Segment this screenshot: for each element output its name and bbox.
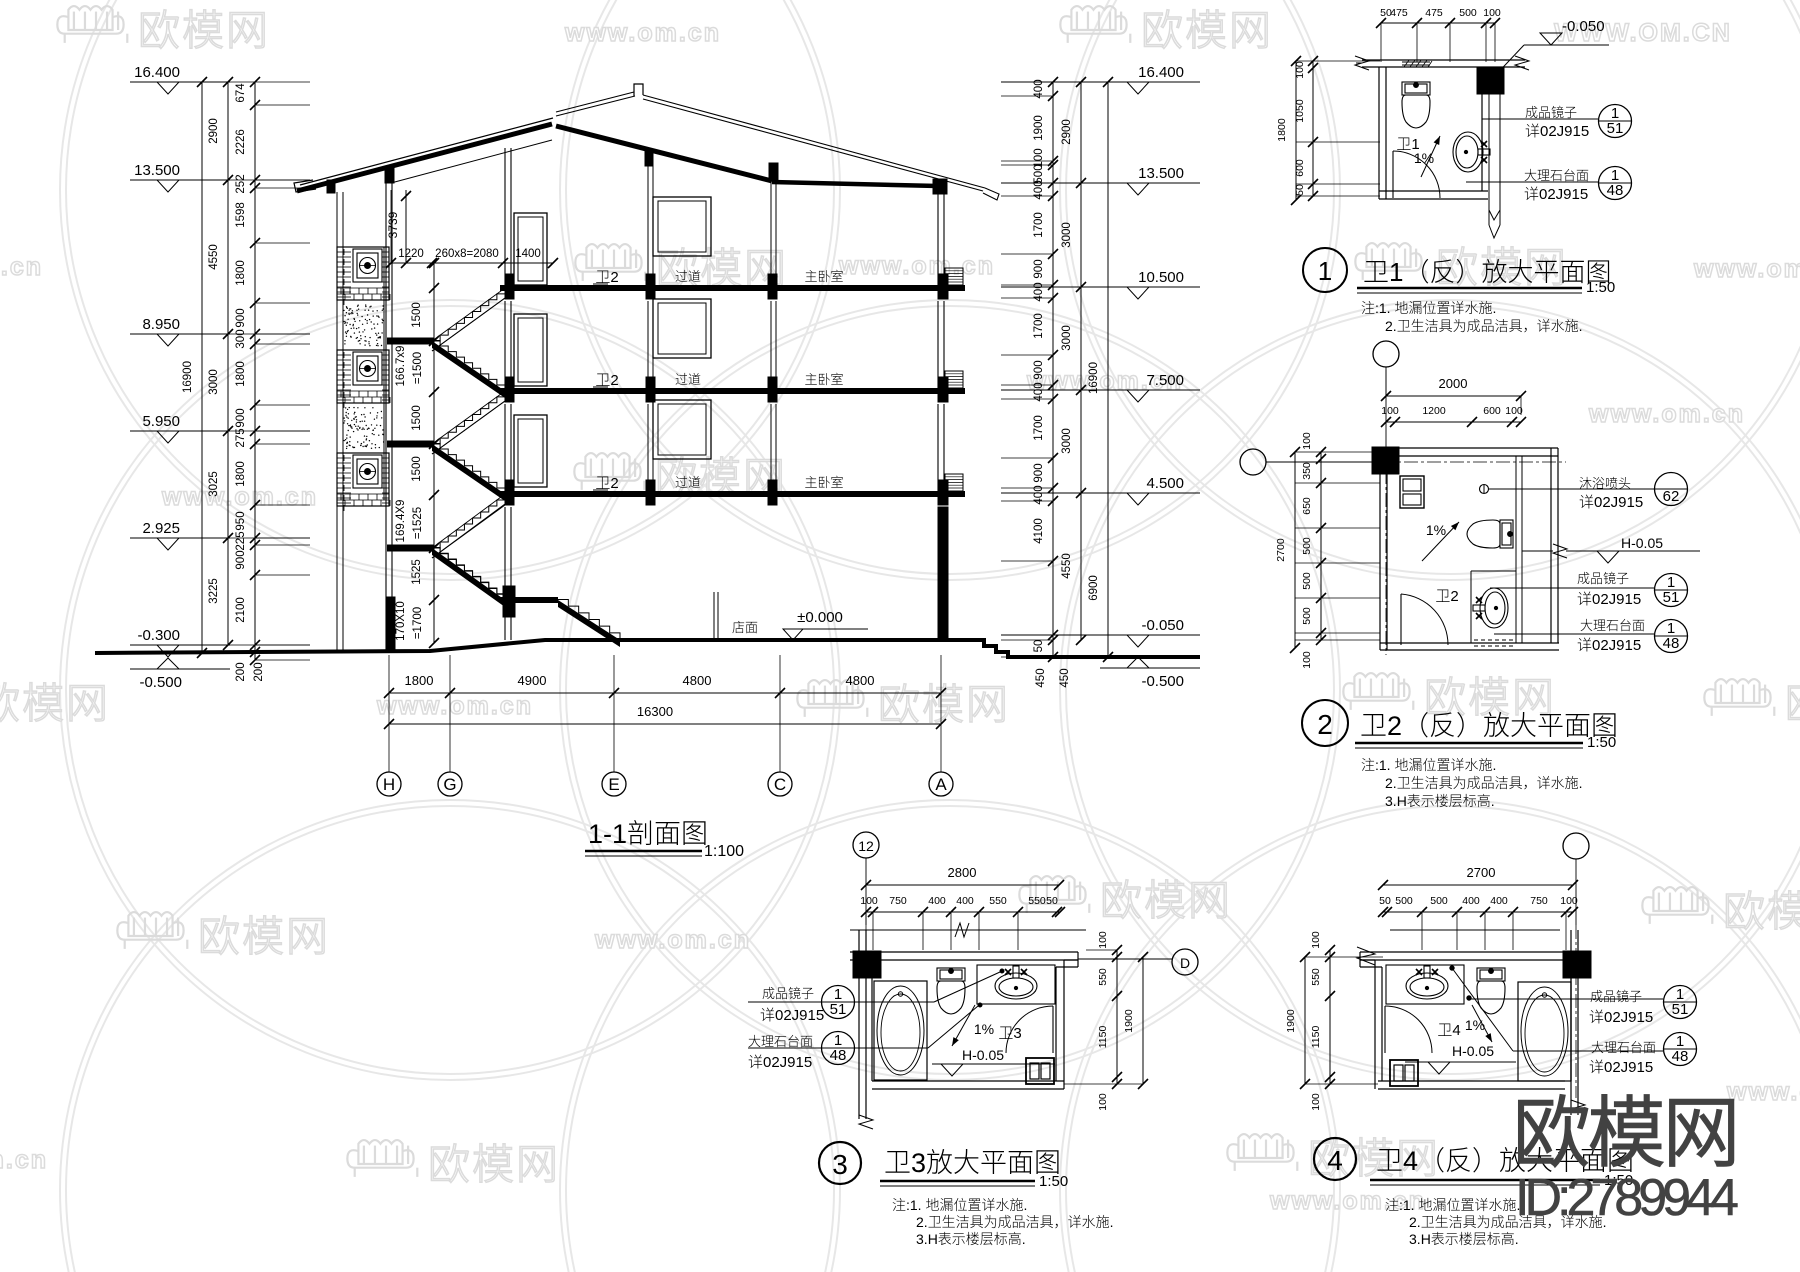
w3: slope arrow — [952, 1005, 975, 1046]
svg-text:www.om.cn: www.om.cn — [0, 253, 43, 281]
svg-text:600: 600 — [1483, 405, 1501, 417]
svg-text:卫4: 卫4 — [1437, 1019, 1460, 1040]
watermark tile: sofa + brand text at 220,936 — [117, 912, 187, 949]
svg-text:www.om.cn: www.om.cn — [564, 19, 721, 47]
w1: marble counter leader — [1466, 181, 1598, 183]
watermark tile: sofa + brand text at 450,1164 — [347, 1140, 417, 1177]
svg-text:3000: 3000 — [1061, 222, 1073, 248]
svg-text:主卧室: 主卧室 — [804, 266, 843, 285]
svg-text:www.om.cn: www.om.cn — [0, 1146, 48, 1174]
section: right roof slope (steep then shallow) — [556, 126, 772, 181]
svg-text:详02J915: 详02J915 — [1524, 183, 1588, 204]
w2: shower leader — [1489, 488, 1654, 490]
svg-text:500: 500 — [1459, 7, 1477, 19]
svg-text:900: 900 — [235, 408, 247, 427]
w3: title — [819, 1142, 861, 1184]
svg-text:2900: 2900 — [208, 118, 220, 144]
svg-text:A: A — [935, 775, 947, 794]
svg-text:450: 450 — [1035, 668, 1047, 687]
svg-text:1800: 1800 — [405, 673, 434, 688]
watermark tile: sofa + brand text at 1330,1158 — [1227, 1134, 1297, 1171]
section: floor slab 3F — [500, 388, 965, 394]
watermark tile: sofa + brand text at 1446,697 — [1343, 673, 1413, 710]
section: room label underlines — [593, 283, 608, 285]
section: chimney shaft with brick hatch boxes — [337, 247, 389, 300]
w4: washing machine — [1390, 1060, 1418, 1086]
svg-text:100: 100 — [1310, 931, 1322, 949]
svg-text:475: 475 — [1425, 7, 1443, 19]
stair flight (beyond) — [432, 288, 505, 341]
right dim chain: total — [1107, 82, 1109, 657]
svg-text:500: 500 — [1430, 895, 1448, 907]
stair guard lines — [432, 298, 505, 351]
svg-text:10.500: 10.500 — [1138, 269, 1184, 286]
svg-text:7.500: 7.500 — [1146, 372, 1184, 389]
svg-text:欧模网: 欧模网 — [1513, 1072, 1738, 1183]
w3: marble leader — [748, 1047, 928, 1049]
svg-text:欧模网: 欧模网 — [0, 670, 110, 731]
section: right eave tip — [983, 188, 999, 200]
svg-text:1700: 1700 — [1033, 313, 1045, 339]
svg-text:4800: 4800 — [846, 673, 875, 688]
svg-text:4550: 4550 — [208, 244, 220, 270]
svg-text:欧模网: 欧模网 — [428, 1131, 560, 1192]
stair rise dim chain — [433, 263, 435, 643]
svg-text:大理石台面: 大理石台面 — [1591, 1037, 1656, 1056]
svg-text:900: 900 — [235, 550, 247, 569]
svg-text:100: 100 — [1483, 7, 1501, 19]
svg-text:=1700: =1700 — [412, 607, 424, 639]
svg-text:674: 674 — [235, 83, 247, 103]
w2: shower head — [1480, 485, 1489, 494]
svg-text:16.400: 16.400 — [1138, 64, 1184, 81]
svg-text:1:100: 1:100 — [704, 843, 744, 860]
svg-text:48: 48 — [1663, 635, 1680, 652]
svg-text:1800: 1800 — [1276, 118, 1288, 142]
svg-text:500: 500 — [1395, 895, 1413, 907]
svg-text:成品镜子: 成品镜子 — [1590, 986, 1642, 1005]
svg-text:1%: 1% — [1465, 1017, 1485, 1033]
svg-text:1:50: 1:50 — [1587, 734, 1616, 751]
svg-text:±0.000: ±0.000 — [797, 609, 843, 626]
left dim chain: storey heights — [227, 82, 229, 645]
svg-text:550: 550 — [1097, 968, 1109, 986]
svg-text:2226: 2226 — [235, 129, 247, 155]
svg-text:www.om.cn: www.om.cn — [376, 692, 533, 720]
stair flight (cut) — [432, 548, 505, 607]
right dim chain: storeys — [1080, 82, 1082, 640]
svg-text:50: 50 — [1046, 895, 1058, 907]
svg-text:详02J915: 详02J915 — [1577, 588, 1641, 609]
w1: top dim chain — [1381, 22, 1495, 24]
svg-text:2900: 2900 — [1061, 119, 1073, 145]
w4: left dim chains — [1329, 950, 1331, 1084]
svg-text:950: 950 — [235, 511, 247, 530]
svg-text:主卧室: 主卧室 — [804, 472, 843, 491]
section: right exterior wall — [937, 193, 939, 288]
svg-text:475: 475 — [1390, 7, 1408, 19]
svg-text:注:1. 地漏位置详水施.: 注:1. 地漏位置详水施. — [1361, 298, 1496, 318]
svg-text:100: 100 — [1505, 405, 1523, 417]
w1: toilet — [1402, 82, 1430, 128]
svg-text:100: 100 — [860, 895, 878, 907]
svg-text:H-0.05: H-0.05 — [1452, 1043, 1494, 1059]
svg-text:卫1（反）放大平面图: 卫1（反）放大平面图 — [1363, 252, 1611, 289]
w1: title — [1303, 248, 1347, 292]
w4: dim fine — [1383, 911, 1573, 913]
svg-text:2800: 2800 — [948, 865, 977, 880]
svg-text:650: 650 — [1301, 497, 1313, 515]
svg-text:200: 200 — [235, 662, 247, 681]
svg-text:欧模网: 欧模网 — [138, 0, 270, 58]
svg-text:www.om.cn: www.om.cn — [594, 926, 751, 954]
svg-text:www.om.cn: www.om.cn — [1588, 400, 1745, 428]
stair landing slab — [387, 441, 434, 448]
svg-text:1500: 1500 — [411, 302, 423, 328]
watermark tile: sofa + brand text at 1122,900 — [1019, 876, 1089, 913]
svg-text:225: 225 — [235, 531, 247, 550]
svg-text:1700: 1700 — [1033, 415, 1045, 441]
svg-text:51: 51 — [1672, 1001, 1689, 1018]
w1: slab strip walls — [1362, 59, 1525, 61]
svg-text:1500: 1500 — [411, 405, 423, 431]
svg-text:1500: 1500 — [411, 456, 423, 482]
svg-text:ID:2789944: ID:2789944 — [1515, 1169, 1738, 1227]
svg-text:卫2: 卫2 — [595, 472, 618, 493]
svg-text:48: 48 — [830, 1047, 847, 1064]
svg-text:13.500: 13.500 — [134, 162, 180, 179]
svg-text:550: 550 — [989, 895, 1007, 907]
w1: door swing — [1392, 151, 1394, 198]
svg-text:大理石台面: 大理石台面 — [1524, 165, 1589, 184]
svg-text:2.卫生洁具为成品洁具，详水施.: 2.卫生洁具为成品洁具，详水施. — [1385, 773, 1583, 793]
svg-text:C: C — [774, 775, 786, 794]
svg-text:-0.500: -0.500 — [139, 674, 182, 691]
section: floor slab 4F — [500, 285, 965, 291]
w3: mirror leader — [748, 1001, 934, 1003]
svg-text:16900: 16900 — [182, 361, 194, 393]
left dim chain: fine — [254, 82, 256, 660]
svg-text:3739: 3739 — [386, 211, 400, 238]
w4: title — [1314, 1138, 1356, 1180]
svg-text:170X10: 170X10 — [395, 601, 407, 641]
w4: basin counter — [1386, 965, 1464, 1004]
svg-text:-0.300: -0.300 — [137, 627, 180, 644]
svg-text:1220: 1220 — [398, 248, 424, 260]
svg-text:详02J915: 详02J915 — [1579, 491, 1643, 512]
svg-text:店面: 店面 — [732, 617, 758, 636]
w4: dim 2700 — [1383, 884, 1573, 886]
svg-text:成品镜子: 成品镜子 — [762, 983, 814, 1002]
svg-text:D: D — [1180, 955, 1190, 971]
svg-text:169.4X9: 169.4X9 — [395, 500, 407, 543]
w4: door swing — [1384, 1006, 1386, 1053]
svg-text:1050: 1050 — [1294, 99, 1306, 123]
svg-text:550: 550 — [1028, 895, 1046, 907]
section: roof purlin blocks — [327, 180, 335, 193]
svg-text:750: 750 — [1530, 895, 1548, 907]
w3: bathtub — [874, 981, 927, 1080]
svg-text:100: 100 — [1310, 1093, 1322, 1111]
svg-text:1:50: 1:50 — [1586, 279, 1615, 296]
svg-text:过道: 过道 — [675, 472, 701, 491]
stair landing slab — [387, 338, 434, 345]
svg-text:50: 50 — [1294, 184, 1306, 196]
w2: slope arrow 1% — [1422, 522, 1459, 561]
svg-text:欧模网: 欧模网 — [1100, 867, 1232, 928]
svg-text:1525: 1525 — [411, 559, 423, 585]
svg-text:400: 400 — [928, 895, 946, 907]
svg-text:3.H表示楼层标高.: 3.H表示楼层标高. — [1385, 791, 1495, 811]
section: ridge vent stub — [634, 84, 643, 96]
section: interior window elevations (corridor wall) — [653, 197, 711, 256]
svg-text:350: 350 — [1301, 462, 1313, 480]
svg-text:卫2（反）放大平面图: 卫2（反）放大平面图 — [1360, 704, 1618, 743]
svg-text:G: G — [443, 775, 456, 794]
svg-text:欧模网: 欧模网 — [1141, 0, 1273, 58]
svg-text:900: 900 — [1033, 259, 1045, 278]
svg-text:详02J915: 详02J915 — [1589, 1006, 1653, 1027]
svg-text:4900: 4900 — [518, 673, 547, 688]
svg-text:详02J915: 详02J915 — [748, 1051, 812, 1072]
w4: walls — [1360, 951, 1583, 953]
w3: upper ref line with break — [850, 929, 1086, 931]
w1: slope arrow — [1421, 136, 1440, 177]
svg-text:1800: 1800 — [235, 260, 247, 286]
svg-text:13.500: 13.500 — [1138, 165, 1184, 182]
svg-text:100: 100 — [1301, 651, 1313, 669]
svg-text:欧模网: 欧模网 — [1723, 878, 1800, 939]
svg-text:E: E — [608, 775, 619, 794]
svg-text:100: 100 — [1560, 895, 1578, 907]
svg-text:3000: 3000 — [1061, 325, 1073, 351]
w4: marble leader — [1513, 1050, 1663, 1052]
w3: grid bubble D — [1172, 949, 1198, 975]
svg-text:51: 51 — [1663, 589, 1680, 606]
stair flight (beyond) — [432, 494, 505, 548]
svg-text:1900: 1900 — [1033, 115, 1045, 141]
svg-text:5.950: 5.950 — [142, 413, 180, 430]
svg-text:8.950: 8.950 — [142, 316, 180, 333]
section: right wall louver vents — [945, 268, 963, 285]
svg-text:260x8=2080: 260x8=2080 — [435, 248, 499, 260]
svg-text:卫2: 卫2 — [595, 266, 618, 287]
w3: basin counter — [977, 965, 1055, 1004]
svg-text:欧模网: 欧模网 — [198, 903, 330, 964]
svg-text:1800: 1800 — [235, 461, 247, 487]
watermark tile: sofa + brand text at 1458,267 — [1355, 243, 1425, 280]
w2: shelf box top left — [1400, 476, 1424, 508]
svg-text:550: 550 — [1310, 968, 1322, 986]
w4: slope arrow — [1472, 1005, 1492, 1042]
section: corridor partition wall — [647, 166, 649, 274]
w2: walls — [1372, 447, 1558, 449]
svg-text:2.卫生洁具为成品洁具，详水施.: 2.卫生洁具为成品洁具，详水施. — [1385, 316, 1583, 336]
svg-text:详02J915: 详02J915 — [760, 1004, 824, 1025]
stair flight (beyond) — [432, 391, 505, 444]
svg-text:=1500: =1500 — [412, 352, 424, 384]
svg-text:450: 450 — [1059, 668, 1071, 687]
w2: door swing — [1400, 594, 1402, 645]
svg-text:H-0.05: H-0.05 — [962, 1047, 1004, 1063]
w4: upper ref line with break — [1390, 929, 1560, 931]
svg-text:详02J915: 详02J915 — [1525, 120, 1589, 141]
svg-text:欧模网: 欧模网 — [1785, 670, 1800, 731]
stair landing slab — [387, 545, 434, 552]
svg-text:48: 48 — [1607, 182, 1624, 199]
svg-text:1400: 1400 — [515, 248, 541, 260]
svg-text:详02J915: 详02J915 — [1577, 634, 1641, 655]
svg-text:100: 100 — [1097, 931, 1109, 949]
watermark tile: sofa + brand text at 678,268 — [575, 244, 645, 281]
svg-text:沐浴喷头: 沐浴喷头 — [1579, 473, 1631, 492]
svg-text:400: 400 — [1462, 895, 1480, 907]
watermark tile: sofa + brand text at 1745,911 — [1642, 887, 1712, 924]
svg-text:卫3放大平面图: 卫3放大平面图 — [884, 1141, 1061, 1180]
dim 1220 260x8=2080 1400 — [391, 262, 553, 264]
svg-text:51: 51 — [1607, 120, 1624, 137]
svg-text:1900: 1900 — [1285, 1009, 1297, 1033]
w1: leader to -0.050 — [1491, 45, 1524, 80]
svg-text:300: 300 — [235, 329, 247, 348]
section: stair/room wall — [504, 148, 506, 288]
section: left roof slope — [297, 124, 552, 191]
section: wall column blocks at slabs — [505, 274, 514, 299]
svg-text:成品镜子: 成品镜子 — [1577, 568, 1629, 587]
svg-text:1150: 1150 — [1310, 1026, 1322, 1049]
svg-text:3000: 3000 — [1061, 428, 1073, 454]
right dim chain: fine — [1052, 82, 1054, 657]
bottom dim chain — [389, 692, 941, 694]
svg-text:3.H表示楼层标高.: 3.H表示楼层标高. — [1409, 1229, 1519, 1249]
svg-text:1%: 1% — [1426, 522, 1446, 538]
svg-text:2100: 2100 — [235, 597, 247, 623]
w3: right dim chains — [1116, 950, 1118, 1084]
watermark tile: sofa + brand text at 1163,30 — [1060, 6, 1130, 43]
svg-text:750: 750 — [889, 895, 907, 907]
w1: pipe shaft — [1488, 94, 1490, 225]
w1: mirror leader — [1482, 118, 1598, 120]
svg-text:16.400: 16.400 — [134, 64, 180, 81]
stair bottom flight to shop floor — [558, 600, 620, 647]
svg-text:www.om.cn: www.om.cn — [1693, 255, 1800, 283]
w4: grid bubble top — [1563, 833, 1589, 859]
w2: grid bubble top — [1373, 341, 1399, 367]
svg-text:12: 12 — [858, 838, 874, 854]
svg-text:62: 62 — [1663, 488, 1680, 505]
svg-text:H-0.05: H-0.05 — [1621, 535, 1663, 551]
grid bubbles H G E C A — [377, 772, 401, 796]
svg-text:4.500: 4.500 — [1146, 475, 1184, 492]
w1: room walls — [1378, 67, 1380, 199]
svg-text:900: 900 — [235, 308, 247, 327]
w3: dim fine — [866, 911, 1060, 913]
svg-text:1150: 1150 — [1097, 1026, 1109, 1049]
svg-text:卫3: 卫3 — [998, 1022, 1021, 1043]
svg-text:成品镜子: 成品镜子 — [1525, 102, 1577, 121]
section: shop floor slab — [548, 638, 984, 642]
w1: black column — [1477, 67, 1504, 94]
svg-text:4800: 4800 — [683, 673, 712, 688]
w4: bathtub — [1518, 982, 1571, 1081]
svg-text:欧模网: 欧模网 — [878, 671, 1010, 732]
w4: mirror leader — [1469, 998, 1663, 1000]
svg-text:500: 500 — [1301, 607, 1313, 625]
svg-text:900: 900 — [1033, 463, 1045, 482]
svg-text:主卧室: 主卧室 — [804, 369, 843, 388]
svg-text:600: 600 — [1294, 159, 1306, 177]
svg-text:2: 2 — [1317, 709, 1333, 740]
svg-text:400: 400 — [956, 895, 974, 907]
svg-text:卫2: 卫2 — [595, 369, 618, 390]
left dim chain: total 16900 — [201, 82, 203, 653]
svg-text:16900: 16900 — [1088, 362, 1100, 394]
section: ground line — [95, 640, 1200, 657]
svg-text:6900: 6900 — [1088, 575, 1100, 601]
svg-text:500: 500 — [1301, 572, 1313, 590]
svg-text:3: 3 — [832, 1149, 848, 1180]
w3: toilet — [937, 968, 965, 1014]
svg-text:500: 500 — [1301, 537, 1313, 555]
svg-text:=1525: =1525 — [412, 507, 424, 539]
svg-text:www.om.cn: www.om.cn — [838, 252, 995, 280]
watermark tile: sofa + brand text at 160,30 — [57, 6, 127, 43]
svg-text:3025: 3025 — [208, 471, 220, 497]
svg-text:51: 51 — [830, 1001, 847, 1018]
section: chimney concrete stipple segments — [336, 192, 338, 651]
w1: left dim chains — [1295, 61, 1297, 200]
watermark tile: sofa + brand text at 900,704 — [797, 680, 867, 717]
svg-text:-0.050: -0.050 — [1141, 617, 1184, 634]
svg-text:100: 100 — [1294, 61, 1306, 79]
svg-text:-0.500: -0.500 — [1141, 673, 1184, 690]
w3: walls — [850, 951, 1078, 953]
section: roof surface thin lines with ridge stub — [556, 92, 634, 112]
w3: washing machine — [1026, 1058, 1054, 1084]
svg-text:2.925: 2.925 — [142, 520, 180, 537]
section: stair mid landing ground floor — [500, 597, 558, 603]
w2: toilet (facing left) — [1467, 520, 1513, 548]
svg-text:1800: 1800 — [235, 361, 247, 387]
w2: title — [1302, 700, 1348, 746]
section: bedroom partition wall — [770, 181, 772, 274]
svg-text:252: 252 — [235, 174, 247, 193]
svg-text:过道: 过道 — [675, 369, 701, 388]
watermark tile: sofa + brand text at 677,477 — [574, 453, 644, 490]
svg-text:3.H表示楼层标高.: 3.H表示楼层标高. — [916, 1229, 1026, 1249]
svg-text:1598: 1598 — [235, 202, 247, 228]
svg-text:2700: 2700 — [1467, 865, 1496, 880]
w2: left dim chain — [1294, 452, 1296, 648]
svg-text:900: 900 — [1033, 360, 1045, 379]
svg-text:1900: 1900 — [1123, 1009, 1135, 1033]
w2: marble leader — [1494, 633, 1654, 635]
w2: mirror leader — [1490, 587, 1654, 589]
svg-text:3000: 3000 — [208, 369, 220, 395]
svg-text:2000: 2000 — [1439, 376, 1468, 391]
svg-text:48: 48 — [1672, 1048, 1689, 1065]
svg-text:100: 100 — [1097, 1093, 1109, 1111]
svg-text:大理石台面: 大理石台面 — [748, 1031, 813, 1050]
svg-text:1: 1 — [1318, 256, 1332, 286]
svg-text:4100: 4100 — [1033, 518, 1045, 544]
svg-text:1%: 1% — [974, 1021, 994, 1037]
svg-text:H: H — [383, 775, 395, 794]
svg-text:1200: 1200 — [1422, 405, 1446, 417]
right dim extension lines — [1001, 81, 1053, 83]
svg-text:卫2: 卫2 — [1435, 585, 1458, 606]
svg-text:200: 200 — [253, 662, 265, 681]
